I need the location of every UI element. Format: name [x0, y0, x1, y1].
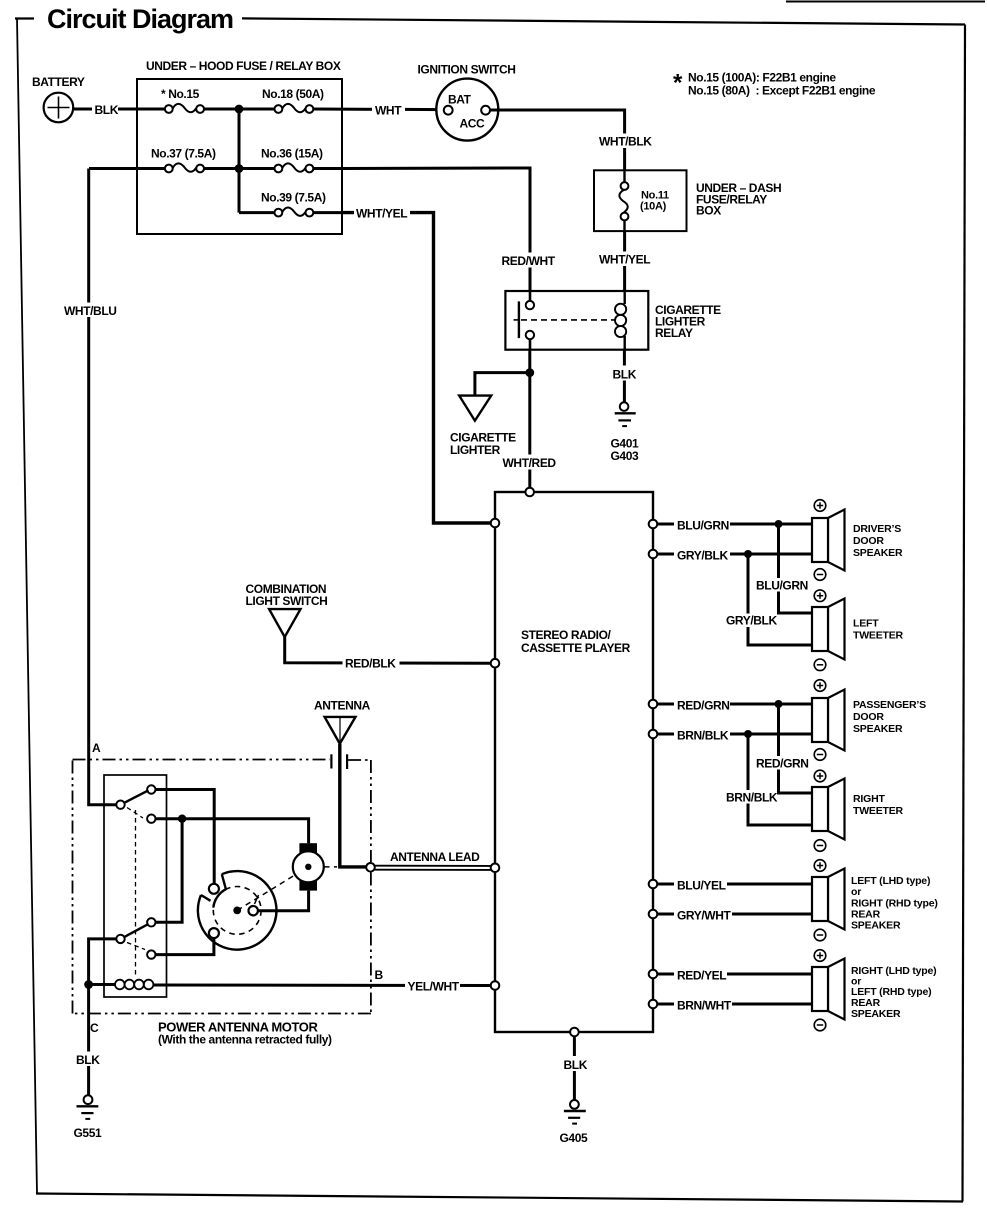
antenna — [314, 699, 371, 744]
svg-text:RIGHT (LHD type): RIGHT (LHD type) — [851, 965, 936, 977]
fuse No.18 (50A) — [262, 87, 324, 113]
label WHT/YEL fuse 39 wire — [354, 206, 410, 221]
fuse No.36 (15A) — [261, 147, 323, 173]
ground G551 — [74, 1095, 102, 1140]
label WHT ignition feed — [372, 103, 405, 118]
svg-text:RED/WHT: RED/WHT — [502, 254, 556, 268]
cigarette lighter element — [450, 396, 516, 457]
svg-text:DOOR: DOOR — [853, 535, 884, 547]
label BLK stereo ground — [561, 1056, 589, 1072]
relay switch 2 down contact — [147, 950, 155, 958]
svg-text:LIGHT SWITCH: LIGHT SWITCH — [246, 594, 328, 608]
antenna mast wire — [340, 744, 366, 867]
svg-text:WHT/BLU: WHT/BLU — [64, 304, 117, 318]
wire WHT/BLU No.37 down left side — [89, 169, 117, 805]
label stereo radio/cassette player — [521, 628, 631, 655]
svg-text:BLU/YEL: BLU/YEL — [677, 879, 726, 893]
label RED/YEL — [674, 967, 727, 983]
svg-text:* No.15: * No.15 — [161, 87, 200, 101]
page border frame right edge — [963, 25, 966, 1202]
fuse No.11 (10A) — [619, 170, 669, 231]
svg-text:CASSETTE PLAYER: CASSETTE PLAYER — [521, 641, 631, 655]
mechanical dashed link gear to motor to mast — [237, 867, 337, 911]
wire WHT/YEL No.39 to stereo — [342, 213, 491, 523]
relay switch 2 up contact — [147, 918, 155, 926]
junction RED/GRN branch — [775, 700, 783, 708]
terminal stereo top WHT/RED — [525, 488, 534, 497]
gear upper contact — [209, 884, 219, 894]
svg-text:SPEAKER: SPEAKER — [853, 547, 903, 559]
svg-text:No.37 (7.5A): No.37 (7.5A) — [151, 147, 216, 161]
title bracket tick — [15, 17, 34, 19]
label WHT/RED — [500, 455, 559, 471]
svg-text:No.18 (50A): No.18 (50A) — [262, 87, 324, 101]
svg-text:BLK: BLK — [95, 103, 119, 117]
svg-text:TWEETER: TWEETER — [853, 805, 904, 817]
page border frame bottom edge — [36, 1194, 963, 1202]
svg-text:WHT/RED: WHT/RED — [503, 456, 557, 470]
label BRN/BLK — [674, 727, 730, 743]
svg-text:No.15 (100A): F22B1 engine: No.15 (100A): F22B1 engine — [688, 71, 836, 85]
wire No.39 right exit — [313, 211, 342, 214]
driver's door speaker — [812, 500, 903, 581]
combination light switch — [246, 582, 328, 637]
svg-text:SPEAKER: SPEAKER — [851, 920, 901, 932]
wire BLU/GRN branch to left tweeter — [779, 524, 813, 613]
label WHT/BLU — [62, 303, 117, 319]
svg-text:G551: G551 — [74, 1126, 102, 1140]
svg-text:DOOR: DOOR — [853, 711, 884, 723]
svg-text:or: or — [851, 886, 861, 898]
relay switch 1 common contact — [116, 801, 124, 809]
svg-text:BRN/BLK: BRN/BLK — [677, 729, 729, 743]
terminal stereo bottom BLK — [570, 1028, 579, 1037]
label under-dash fuse/relay box — [696, 181, 781, 218]
terminal stereo right GRY/WHT — [649, 910, 658, 919]
power antenna relay box — [104, 775, 167, 997]
terminal antenna lead at box edge — [366, 863, 375, 872]
battery B1 — [32, 75, 85, 122]
wire relay sw1 up to gear upper contact — [156, 790, 215, 884]
label RED/WHT — [499, 253, 558, 269]
cigarette lighter relay K1 — [505, 291, 648, 350]
label GRY/BLK — [674, 547, 730, 563]
wire gear right contact to motor bottom — [258, 891, 309, 911]
wire fuse row 1 No.15 to junction — [204, 108, 239, 111]
svg-text:RIGHT: RIGHT — [853, 793, 885, 805]
label BLU/GRN branch — [753, 578, 808, 593]
label BLU/YEL — [674, 877, 727, 893]
svg-text:LEFT (LHD type): LEFT (LHD type) — [851, 875, 930, 887]
scan artifact line top right — [786, 1, 985, 3]
svg-text:LIGHTER: LIGHTER — [450, 443, 501, 457]
terminal stereo right RED/YEL — [649, 970, 658, 979]
wire row2 No.37 left exit — [89, 167, 165, 170]
label cigarette lighter relay — [655, 303, 721, 340]
stereo radio/cassette player box — [495, 492, 653, 1032]
svg-text:SPEAKER: SPEAKER — [853, 723, 903, 735]
fuse No.39 (7.5A) — [261, 191, 326, 217]
svg-text:RELAY: RELAY — [655, 326, 693, 340]
junction GRY/BLK branch — [744, 550, 752, 558]
rear speaker left LHD — [812, 860, 938, 941]
wire junction to fuse No.18 — [239, 108, 275, 111]
svg-text:(10A): (10A) — [640, 201, 667, 213]
terminal stereo right BLU/YEL — [649, 880, 658, 889]
svg-text:WHT/YEL: WHT/YEL — [356, 207, 407, 221]
terminal stereo right GRY/BLK — [649, 550, 658, 559]
terminal stereo right RED/GRN — [649, 700, 658, 709]
junction cigarette lighter branch — [525, 368, 534, 377]
wire GRY/BLK to driver's door speaker — [657, 553, 812, 556]
svg-text:BLK: BLK — [613, 368, 637, 382]
motor M1 — [293, 843, 324, 890]
wire BLK stereo to ground G405 — [573, 1036, 576, 1100]
svg-text:RED/YEL: RED/YEL — [677, 969, 726, 983]
svg-text:BLK: BLK — [564, 1058, 588, 1072]
terminal stereo left YEL/WHT — [491, 981, 500, 990]
svg-text:Circuit Diagram: Circuit Diagram — [47, 4, 233, 34]
svg-text:C: C — [90, 1021, 99, 1035]
svg-text:B: B — [375, 968, 384, 982]
fuse No.15 — [161, 87, 204, 113]
relay switch 1 down contact — [147, 815, 155, 823]
svg-text:STEREO RADIO/: STEREO RADIO/ — [521, 628, 612, 642]
svg-text:DRIVER’S: DRIVER’S — [853, 523, 901, 535]
label RED/GRN branch — [753, 756, 809, 771]
wire row3 bus to No.39 — [239, 211, 275, 214]
wire GRY/BLK branch to left tweeter — [748, 554, 812, 645]
svg-text:WHT/BLK: WHT/BLK — [599, 135, 652, 149]
wire row2 No.37 to junction — [204, 167, 239, 170]
wire ground net left with coil feed — [89, 939, 117, 1095]
label BRN/BLK branch — [723, 790, 778, 805]
wire to cigarette lighter — [475, 373, 530, 396]
relay switch 2 blade — [124, 924, 148, 937]
ground G405 — [560, 1100, 588, 1145]
junction row2 bus — [235, 164, 244, 173]
label RED/GRN — [674, 697, 730, 713]
label GRY/BLK branch — [723, 614, 777, 628]
gear right contact — [249, 906, 258, 915]
label BRN/WHT — [674, 997, 732, 1013]
terminal stereo right BLU/GRN — [649, 520, 658, 529]
relay switch 1 up contact — [147, 785, 155, 793]
wire BLU/YEL to rear speaker 1 — [657, 883, 812, 886]
svg-text:IGNITION SWITCH: IGNITION SWITCH — [418, 63, 516, 77]
wire GRY/WHT to rear speaker 1 — [657, 913, 812, 916]
svg-text:BRN/WHT: BRN/WHT — [677, 999, 732, 1013]
svg-text:*: * — [673, 70, 683, 97]
label BLK battery wire — [92, 102, 119, 117]
left tweeter — [812, 590, 904, 671]
wire BRN/BLK to passenger's door speaker — [657, 733, 812, 736]
label RED/BLK — [343, 656, 400, 671]
rear speaker right LHD — [812, 950, 936, 1031]
label YEL/WHT — [405, 978, 460, 994]
svg-text:No.39 (7.5A): No.39 (7.5A) — [261, 191, 326, 205]
svg-text:RED/GRN: RED/GRN — [677, 699, 730, 713]
wire relay sw2 down to gear lower contact — [156, 938, 214, 955]
svg-text:BLU/GRN: BLU/GRN — [677, 519, 729, 533]
svg-text:GRY/BLK: GRY/BLK — [726, 614, 777, 628]
svg-text:TWEETER: TWEETER — [853, 630, 904, 642]
wire BRN/BLK branch to right tweeter — [748, 734, 812, 825]
wire WHT/RED relay to stereo radio — [528, 350, 531, 492]
relay switch 1 blade — [124, 790, 148, 803]
wire RED/GRN branch to right tweeter — [779, 704, 813, 793]
wire BRN/WHT to rear speaker 2 — [657, 1003, 812, 1006]
svg-text:LEFT: LEFT — [853, 618, 879, 630]
title rule to right border — [242, 18, 965, 24]
svg-text:G403: G403 — [611, 449, 639, 463]
wire junction to No.36 — [239, 167, 275, 170]
svg-text:UNDER – HOOD FUSE / RELAY BOX: UNDER – HOOD FUSE / RELAY BOX — [146, 59, 341, 73]
wire RED/WHT No.36 to cigarette lighter relay — [342, 168, 530, 291]
wire WHT/YEL under-dash fuse to relay coil — [623, 231, 626, 291]
svg-text:G405: G405 — [560, 1131, 588, 1145]
junction row1 bus — [235, 105, 244, 114]
label BLK relay ground wire — [610, 366, 638, 382]
wire fuse No.18 to ignition switch — [313, 108, 444, 112]
junction BRN/BLK branch — [744, 730, 752, 738]
page border frame left edge — [17, 19, 37, 1194]
svg-text:No.36 (15A): No.36 (15A) — [261, 147, 323, 161]
svg-text:BAT: BAT — [448, 93, 472, 107]
antenna mast break ticks — [330, 754, 332, 768]
gear disc cam — [198, 871, 277, 950]
gear lower contact — [209, 928, 219, 938]
svg-text:ANTENNA LEAD: ANTENNA LEAD — [390, 850, 480, 864]
wire RED/YEL to rear speaker 2 — [657, 973, 812, 976]
svg-text:BLK: BLK — [76, 1053, 100, 1067]
svg-text:(With the antenna retracted fu: (With the antenna retracted fully) — [158, 1033, 332, 1047]
svg-text:ACC: ACC — [460, 117, 486, 131]
terminal stereo left RED/BLK — [491, 659, 500, 668]
svg-text:A: A — [92, 741, 101, 755]
label WHT/YEL — [597, 252, 653, 267]
power antenna motor boundary dash-dot box — [73, 760, 371, 1014]
relay coil power antenna — [115, 980, 153, 990]
note No.15 ratings — [673, 70, 876, 98]
svg-text:WHT: WHT — [375, 104, 402, 118]
fuse No.37 (7.5A) — [151, 147, 216, 173]
terminal stereo left WHT/YEL — [491, 519, 500, 528]
terminal stereo left antenna lead — [491, 864, 500, 873]
label WHT/BLK — [597, 134, 653, 149]
svg-text:RED/GRN: RED/GRN — [756, 757, 809, 771]
under-hood fuse/relay box — [137, 79, 342, 234]
svg-text:BATTERY: BATTERY — [32, 75, 85, 89]
svg-text:SPEAKER: SPEAKER — [851, 1008, 901, 1020]
wire BLK relay coil to ground — [623, 350, 626, 403]
wire RED/BLK combination light switch to stereo — [285, 637, 491, 663]
right tweeter — [812, 770, 904, 851]
svg-text:No.15 (80A) : Except F22B1 en: No.15 (80A) : Except F22B1 engine — [688, 84, 876, 98]
svg-text:BLU/GRN: BLU/GRN — [756, 579, 808, 593]
wire YEL/WHT coil to stereo — [153, 984, 490, 988]
label BLU/GRN — [674, 517, 730, 533]
antenna lead shielded double wire — [375, 866, 491, 870]
junction cross link — [178, 815, 186, 823]
wire RED/GRN to passenger's door speaker — [657, 703, 812, 706]
bus vertical inside fuse box — [238, 109, 241, 213]
wire relay sw1 down to motor top — [156, 819, 309, 844]
terminal stereo right BRN/WHT — [649, 1000, 658, 1009]
svg-text:ANTENNA: ANTENNA — [314, 699, 371, 713]
under-dash fuse/relay box — [594, 170, 687, 231]
svg-text:YEL/WHT: YEL/WHT — [408, 980, 460, 994]
svg-text:BOX: BOX — [696, 204, 721, 218]
relay switch 2 common contact — [116, 935, 124, 943]
label power antenna motor — [158, 1020, 332, 1047]
relay actuator dashed link — [127, 808, 145, 977]
label GRY/WHT — [674, 907, 732, 923]
svg-text:PASSENGER’S: PASSENGER’S — [853, 699, 926, 711]
wire BLK battery to fuse box — [73, 108, 165, 111]
svg-text:BRN/BLK: BRN/BLK — [726, 791, 778, 805]
wire cross link to relay sw2 up — [156, 819, 183, 923]
svg-text:RED/BLK: RED/BLK — [345, 657, 396, 671]
junction coil ground — [84, 980, 93, 989]
svg-text:GRY/BLK: GRY/BLK — [677, 549, 728, 563]
ignition switch SW1 — [418, 63, 516, 141]
svg-text:GRY/WHT: GRY/WHT — [677, 909, 731, 923]
label BLK ground G551 wire — [74, 1052, 102, 1068]
ground G401 G403 — [611, 402, 639, 463]
terminal stereo right BRN/BLK — [649, 730, 658, 739]
svg-text:WHT/YEL: WHT/YEL — [599, 253, 650, 267]
wire No.36 right exit — [313, 167, 342, 170]
wire coil to junction — [89, 983, 115, 986]
junction BLU/GRN branch — [775, 520, 783, 528]
passenger's door speaker — [812, 680, 926, 761]
wire BLU/GRN to driver's door speaker — [657, 523, 812, 526]
wire ignition ACC to WHT/BLK corner — [490, 110, 624, 170]
